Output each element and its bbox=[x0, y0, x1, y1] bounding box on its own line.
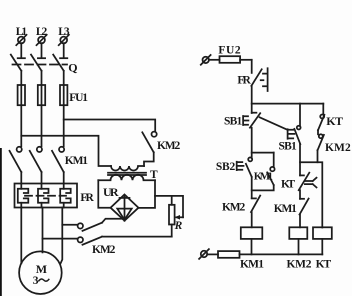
motor M bbox=[19, 251, 62, 294]
wire Q to FU1 pole 2 bbox=[41, 71, 43, 85]
wire secondary right to bridge bbox=[139, 180, 156, 208]
switch Q pole 2 blade bbox=[31, 55, 42, 71]
svg-text:KM2: KM2 bbox=[222, 201, 245, 213]
wire FR contact down bbox=[251, 86, 253, 113]
transformer T core bbox=[108, 173, 146, 175]
scan edge artifact bbox=[0, 148, 2, 296]
contactor KM2 aux contact (NO) bbox=[318, 134, 324, 150]
wire Q to FU1 pole 3 bbox=[63, 71, 65, 85]
wire KM2 contact to node C bbox=[300, 150, 318, 162]
wire KM1 to FR pole 2 bbox=[41, 172, 43, 184]
contactor KM1 main contact pole 3 bbox=[52, 147, 64, 172]
wire KM1 to FR pole 1 bbox=[20, 172, 22, 184]
switch Q pole 1 blade bbox=[11, 55, 21, 71]
wire node A to SB1 start bbox=[299, 104, 301, 126]
thermal relay FR box bbox=[15, 184, 78, 208]
wire FU2 to FR bbox=[251, 60, 253, 73]
svg-text:SB1: SB1 bbox=[224, 115, 242, 127]
contactor KM1 interlock contact (NC) bbox=[300, 199, 309, 215]
terminal L3 bbox=[59, 35, 69, 45]
wire phase3 branch to KM2 main bbox=[64, 120, 156, 132]
switch Q pole 3 blade bbox=[53, 55, 64, 71]
pushbutton SB1 stop contact (NC) bbox=[243, 113, 260, 128]
wire brake contact upper to rectifier bbox=[102, 219, 125, 223]
wire SB1 start down bbox=[299, 144, 301, 175]
svg-text:FU1: FU1 bbox=[69, 92, 88, 104]
svg-text:KM1: KM1 bbox=[254, 171, 273, 183]
pushbutton SB1 start contact (NO) bbox=[288, 126, 301, 144]
wire KM1 to FR pole 3 bbox=[63, 172, 65, 184]
link SB1 stop to SB1 start bbox=[260, 117, 287, 129]
fuse FU1 pole 2 bbox=[38, 85, 45, 105]
terminal L1 bbox=[16, 35, 26, 45]
wire brake contact lower to resistor R bbox=[102, 236, 172, 238]
wire phase1 branch to transformer primary bbox=[21, 136, 111, 166]
svg-text:KM2: KM2 bbox=[287, 258, 312, 270]
svg-text:SB2: SB2 bbox=[216, 161, 236, 173]
terminal L2 bbox=[37, 35, 47, 45]
switch Q link (dashed) bbox=[13, 64, 68, 66]
contactor KM1 aux contact (NO, self hold) bbox=[252, 153, 275, 191]
svg-text:SB1: SB1 bbox=[279, 141, 297, 153]
wire KM1 coil to rail bbox=[251, 239, 253, 254]
svg-text:KT: KT bbox=[281, 179, 295, 191]
time relay KT contact (NO) bbox=[318, 115, 324, 131]
svg-text:FR: FR bbox=[80, 192, 94, 204]
FR heater element 1 bbox=[18, 184, 29, 208]
transformer T primary winding bbox=[111, 166, 144, 171]
wire FU1 to KM1 pole 2 bbox=[41, 105, 43, 146]
wire KM2 main to transformer primary bbox=[144, 152, 154, 166]
svg-text:KM1: KM1 bbox=[240, 258, 264, 270]
fuse FU1 pole 3 bbox=[60, 85, 67, 105]
svg-text:KM2: KM2 bbox=[157, 140, 180, 152]
wire brake tap lower bbox=[43, 238, 78, 240]
wire KT coil to rail bbox=[321, 239, 323, 254]
FR link (dashed) bbox=[25, 195, 66, 197]
contactor KM2 main contact bbox=[142, 132, 156, 153]
wire node C to KT coil bbox=[318, 162, 323, 227]
svg-text:FR: FR bbox=[237, 75, 251, 87]
svg-text:KM2: KM2 bbox=[325, 142, 351, 154]
svg-text:KT: KT bbox=[326, 114, 343, 128]
svg-text:KM1: KM1 bbox=[274, 203, 297, 215]
wire secondary left to bridge bbox=[98, 180, 110, 207]
pushbutton SB2 start contact (NO) bbox=[237, 157, 253, 176]
wire L1 drop to switch bbox=[18, 43, 25, 58]
svg-text:Q: Q bbox=[68, 61, 77, 75]
contactor KM1 main contact pole 1 bbox=[10, 147, 22, 172]
node A bus bbox=[252, 103, 324, 105]
svg-text:R: R bbox=[174, 220, 183, 232]
control terminal bottom bbox=[199, 249, 209, 259]
FR heater element 3 bbox=[60, 184, 70, 208]
wire brake tap upper bbox=[62, 224, 77, 226]
wire KT to KM2 contact bbox=[317, 130, 319, 134]
bottom rail bbox=[240, 253, 323, 255]
wire KM2 coil to rail bbox=[298, 239, 300, 254]
wire KM1 interlock to KM2 coil bbox=[299, 215, 301, 228]
svg-text:KT: KT bbox=[316, 258, 332, 270]
wire Q to FU1 pole 1 bbox=[20, 71, 22, 85]
contactor KM2 brake contact lower bbox=[78, 237, 102, 245]
svg-text:KM1: KM1 bbox=[65, 155, 88, 167]
wire FR to motor phase 1 bbox=[20, 208, 22, 264]
fuse FU2 bbox=[209, 56, 252, 63]
wire FU1 to KM1 pole 1 bbox=[20, 105, 22, 146]
FR heater element 2 bbox=[38, 184, 49, 208]
wire SB1 stop down bbox=[251, 128, 253, 158]
wire KM2 interlock to KM1 coil bbox=[251, 212, 253, 227]
wire FR to motor phase 2 bbox=[42, 208, 44, 253]
wire L2 drop to switch bbox=[38, 43, 45, 58]
resistor R bbox=[155, 196, 183, 237]
rectifier UR bridge bbox=[111, 195, 139, 221]
wire SB2 down bbox=[251, 177, 253, 198]
wire KT contact down bbox=[299, 190, 301, 199]
coil KM2 bbox=[289, 227, 307, 239]
svg-text:UR: UR bbox=[103, 185, 119, 199]
control terminal top bbox=[201, 55, 211, 65]
svg-text:FU2: FU2 bbox=[218, 45, 240, 57]
wire FR to motor phase 3 bbox=[61, 208, 63, 264]
node B branch to KM1 aux bbox=[252, 152, 274, 154]
transformer T secondary winding bbox=[98, 175, 155, 181]
svg-text:KM2: KM2 bbox=[92, 244, 116, 256]
fuse FU2 bottom bbox=[207, 251, 239, 258]
wire FU1 to KM1 pole 3 bbox=[63, 105, 65, 146]
wire node A corner to KT contact bbox=[322, 104, 324, 114]
fuse FU1 pole 1 bbox=[18, 85, 25, 105]
contactor KM2 brake contact upper bbox=[78, 223, 102, 231]
svg-text:T: T bbox=[150, 169, 158, 181]
contactor KM1 main contact pole 2 bbox=[30, 147, 42, 172]
time relay KT contact (NC delayed) bbox=[299, 173, 317, 191]
coil KM1 bbox=[241, 227, 262, 239]
coil KT bbox=[313, 227, 332, 239]
thermal relay FR contact (NC) bbox=[251, 68, 267, 91]
wire L3 drop to switch bbox=[60, 43, 67, 58]
contactor KM2 interlock contact (NC) bbox=[251, 196, 260, 212]
